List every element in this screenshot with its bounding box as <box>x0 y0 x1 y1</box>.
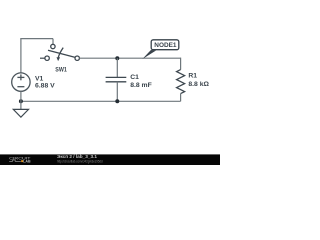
wire: SW1 left open stub <box>40 57 45 59</box>
node NODE1 flag box <box>151 40 179 50</box>
wire: V1 bottom lead <box>20 91 22 109</box>
ground <box>13 109 28 117</box>
node NODE1 flag pointer <box>142 50 156 59</box>
footer logo orange accent <box>21 160 23 162</box>
svg-text:http://circuitlab.com/c/42grk3: http://circuitlab.com/c/42grk3ez95dd <box>57 158 103 163</box>
wire: capacitor C1 bottom lead <box>116 82 118 102</box>
wire: right branch lower <box>180 94 182 102</box>
switch SW1 <box>45 44 80 61</box>
svg-text:6.88 V: 6.88 V <box>35 82 55 89</box>
junction dot: top net / C1 <box>115 56 119 60</box>
footer logo waveform <box>9 160 21 161</box>
junction dot: bottom net / ground <box>19 99 23 103</box>
voltage source V1 <box>12 73 30 91</box>
svg-text:8.8 mF: 8.8 mF <box>130 82 152 89</box>
junction dot: bottom net / C1 <box>115 99 119 103</box>
wire: capacitor C1 top lead <box>116 58 118 77</box>
wire: top-left horizontal <box>20 38 53 40</box>
wire: bottom net <box>21 100 181 102</box>
capacitor C1 <box>106 77 127 81</box>
footer bar <box>0 154 220 165</box>
svg-text:R1: R1 <box>188 73 197 80</box>
svg-text:SW1: SW1 <box>55 67 67 74</box>
wire: top net (SW1 to R1) <box>79 57 180 59</box>
resistor R1 <box>177 70 185 94</box>
svg-text:LAB: LAB <box>23 160 31 164</box>
svg-text:NODE1: NODE1 <box>154 42 177 49</box>
wire: V1 top lead up <box>20 39 22 73</box>
wire: right branch upper <box>180 58 182 70</box>
svg-text:8.8 kΩ: 8.8 kΩ <box>188 81 209 88</box>
wire: stub down to SW1 top throw <box>52 39 54 45</box>
svg-text:C1: C1 <box>130 74 139 81</box>
